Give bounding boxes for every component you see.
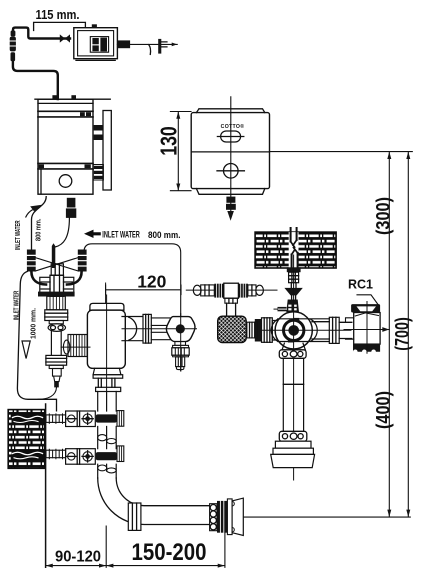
- svg-text:130: 130: [156, 126, 182, 156]
- svg-text:INLET WATER: INLET WATER: [102, 229, 140, 239]
- svg-text:COTTO®: COTTO®: [221, 123, 245, 130]
- svg-text:800 mm.: 800 mm.: [36, 219, 43, 242]
- svg-text:RC1: RC1: [348, 278, 373, 292]
- svg-text:115 mm.: 115 mm.: [36, 7, 80, 22]
- svg-text:1000 mm.: 1000 mm.: [28, 308, 37, 339]
- svg-text:90-120: 90-120: [55, 549, 101, 566]
- svg-text:120: 120: [137, 271, 166, 291]
- svg-text:(400): (400): [374, 391, 395, 429]
- svg-text:INLET WATER: INLET WATER: [15, 220, 22, 250]
- svg-text:(300): (300): [374, 197, 395, 235]
- svg-text:INLET WATER: INLET WATER: [14, 291, 21, 321]
- svg-text:150-200: 150-200: [132, 539, 207, 566]
- svg-text:800 mm.: 800 mm.: [148, 230, 181, 240]
- svg-text:(700): (700): [392, 317, 413, 351]
